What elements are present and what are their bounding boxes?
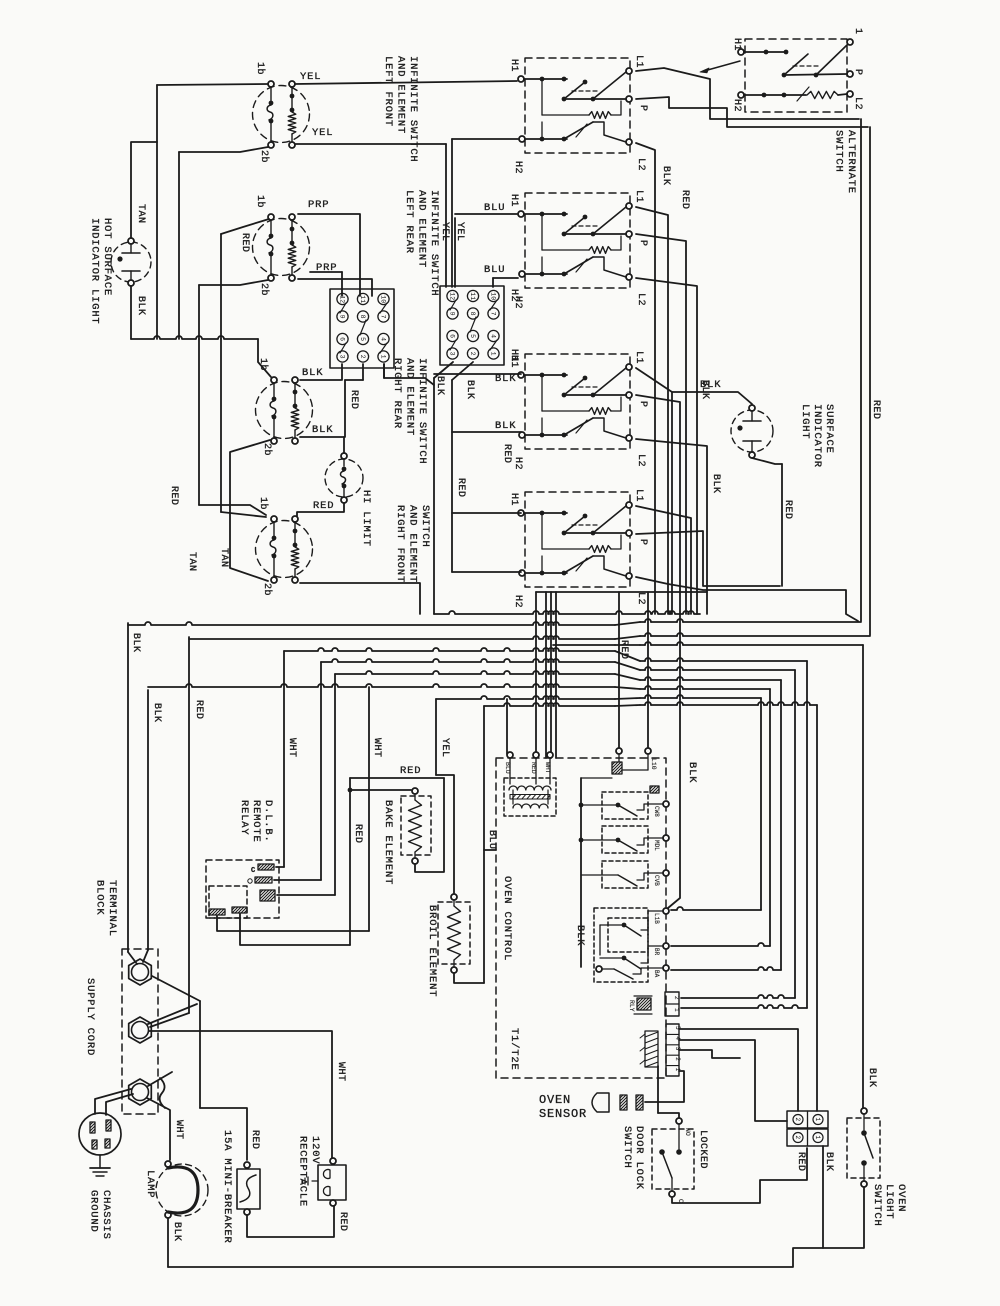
infinite switch right front - 1b terminal [271,516,277,522]
oven control contact CVB [602,861,648,888]
svg-text:5: 5 [359,337,366,341]
left terminal 12 [337,293,348,304]
right terminal 1 [488,348,499,359]
unit 3 terminal L2 [626,435,632,441]
svg-text:4: 4 [489,334,496,338]
svg-text:BROIL ELEMENT: BROIL ELEMENT [426,905,438,997]
svg-text:H2: H2 [731,99,742,112]
svg-text:YEL: YEL [439,738,450,758]
svg-text:TERMINAL: TERMINAL [106,880,118,937]
supply terminal nut 2 [129,1017,152,1043]
wire: nut1 fan to x200 [152,976,200,1001]
infinite switch right front - dashed body [256,521,313,578]
wire bus x221 lower run to RF 1b [220,339,222,512]
svg-text:T1/T2E: T1/T2E [508,1028,520,1071]
svg-text:D.L.B.: D.L.B. [262,800,274,843]
wire YEL: LF element bottom right [295,143,446,145]
svg-text:INFINITE SWITCH: INFINITE SWITCH [407,56,419,163]
right terminal 6 [447,330,458,341]
right terminal 12 [447,290,458,301]
wire: bus y699 down x761 to L1B [760,698,762,910]
unit 3 terminal H2 [519,432,525,438]
svg-text:RED: RED [239,233,250,253]
svg-text:BLU: BLU [504,762,511,774]
svg-text:120V: 120V [309,1136,321,1164]
wire crossing wiggle near nut3 [160,1078,165,1108]
svg-text:L1: L1 [633,489,644,502]
RLY 2-pin connector [665,992,679,1016]
svg-text:SWITCH: SWITCH [419,505,431,548]
HI LIMIT bottom wire to RF element top [297,503,344,516]
svg-text:L2: L2 [852,97,863,110]
svg-text:WHT: WHT [544,762,551,774]
svg-text:RECEPTACLE: RECEPTACLE [297,1136,309,1207]
wire bundle verticals into oven control [535,592,537,754]
oven control contact MDL [602,826,648,853]
oven control contact CW8 [602,792,648,819]
wire: x452 into unit4 H1 [452,512,521,514]
svg-text:L10: L10 [650,758,657,770]
relay pin N (mid) [255,877,272,883]
wire YEL: LF element top to switch unit1 H1 [295,81,517,84]
unit 1 (top) terminal L2 [626,139,632,145]
relay pin N (top) [258,864,274,870]
wire BLK from lamp bottom [167,1218,169,1267]
unit 3 internal contacts [524,374,567,376]
wires from ground to nut3 [95,1089,131,1114]
wire YEL vertical to right terminal block [445,144,447,287]
infinite switch left front - dashed body [253,86,310,143]
svg-text:RED: RED [782,500,793,520]
unit 1 (top) internal contacts [524,78,567,80]
svg-text:TAN: TAN [218,548,229,568]
supply terminal nut 3 [129,1079,152,1105]
svg-text:1b: 1b [254,195,266,208]
wire: RR 1b from junction row [258,339,271,377]
svg-text:YEL: YEL [300,71,321,83]
infinite switch right rear - 1b terminal [271,377,277,383]
svg-text:REMOTE: REMOTE [250,800,262,843]
wire: unit1 L2 down bus x655 [636,143,655,614]
wire TAN: indicator light top [131,142,157,238]
wire to unit1 H2 [452,138,518,140]
svg-text:RIGHT FRONT: RIGHT FRONT [394,505,406,583]
svg-text:RED: RED [870,400,881,420]
svg-text:CW8: CW8 [653,806,660,817]
svg-text:H1: H1 [508,493,519,506]
svg-text:H1: H1 [508,59,519,72]
chassis ground connector [79,1113,121,1155]
infinite switch left rear - 1b terminal [268,214,274,220]
wire: RF element bottom [300,583,420,614]
unit 1 (top) terminal H2 [519,136,525,142]
arrow pointing to alternate switch wiring [704,61,740,71]
wire bake top from x350 [350,789,411,791]
element coil of left rear [289,214,295,220]
wire block2 BLK down to bottom run [822,1146,824,1248]
wire: nut3 to lamp (WHT) [147,1098,170,1160]
left terminal 9 [337,311,348,322]
svg-text:2: 2 [794,1136,801,1140]
wire bus RED y639 [189,636,615,639]
right terminal 9 [447,308,458,319]
unit 3 terminal H1 [518,372,524,378]
wire y778 RED run [350,777,444,779]
wire WHT x284 to relay pin C [283,651,285,867]
unit 4 (bottom) terminal P [626,530,632,536]
15A mini-breaker [237,1169,260,1209]
svg-text:P: P [637,401,648,408]
left terminal 5 [357,333,368,344]
svg-text:BLK: BLK [574,925,586,946]
svg-text:RED: RED [679,190,690,210]
wire: left block bottom stubs [383,364,385,378]
wire y614 run to bundle [434,611,700,614]
svg-text:C: C [251,867,255,875]
wire BLK: bus y645 down x863 to oven light switch [862,645,864,1110]
svg-text:H1: H1 [508,355,519,368]
wire bundle tops y592 [536,591,707,593]
wire: unit2 P down bus x686 [636,234,686,614]
chassis ground symbol [99,1155,101,1168]
oven control transformer [504,778,556,816]
terminal block right [440,286,504,365]
unit 4 (bottom) lower contact [525,572,567,574]
svg-text:P: P [637,240,648,247]
alternate switch contacts [744,51,786,53]
svg-text:10: 10 [379,295,386,303]
unit 4 (bottom) internal contacts [524,512,567,514]
wire: unit3 L2 down bus x707 [636,439,707,614]
unit 3 terminal P [626,392,632,398]
svg-text:RED: RED [337,1212,348,1232]
svg-text:H2: H2 [512,457,523,470]
wire BLK: RR element top to left block stub [300,379,341,381]
svg-text:6: 6 [448,334,455,338]
wire broil bottom to BLU x484 [454,973,484,983]
wire PRP: LR element top to left block [298,214,360,296]
svg-text:H2: H2 [512,595,523,608]
D.L.B. remote relay dashed enclosure [206,860,279,918]
unit 3 terminal L1 [626,364,632,370]
wire BLK x148 down to nut1 [147,690,149,950]
svg-text:2: 2 [674,1057,681,1061]
wire: x452 corner into unit4 H2 [452,571,521,573]
infinite switch left front - contact blade [270,87,272,101]
svg-text:LIGHT: LIGHT [883,1184,895,1220]
svg-text:WHT: WHT [173,1120,184,1140]
wire y1008 to RLY connector [681,1005,807,1008]
unit 2 internal contacts [524,213,567,215]
wire: right block bottom to x452 [452,362,473,380]
120V receptacle [318,1165,346,1200]
wire from 5-pin row3 stub [679,1050,740,1058]
wire bus y674 [335,671,615,674]
svg-text:RED: RED [352,824,363,844]
bake element [401,796,431,855]
svg-text:SWITCH: SWITCH [871,1184,883,1227]
svg-text:BLK: BLK [866,1068,877,1088]
svg-text:WHT: WHT [286,738,297,758]
svg-text:1b: 1b [257,497,269,510]
wire from 5-pin row5 to block1 [679,1029,798,1111]
unit 2 terminal P [626,231,632,237]
unit 3 pilot resistor [541,375,543,411]
svg-text:LEFT FRONT: LEFT FRONT [382,56,394,127]
unit 1 (top) terminal P [626,96,632,102]
lower contact BA [596,966,602,972]
wire: unit4 L2 to right trunk corner [636,577,858,621]
svg-text:2b: 2b [261,443,273,456]
svg-text:RED: RED [348,390,359,410]
svg-text:INDICATOR: INDICATOR [811,404,823,468]
svg-text:INFINITE SWITCH: INFINITE SWITCH [428,190,440,297]
wire: x200 to mini-breaker top [200,1108,247,1160]
unit 3 lower contact [525,434,567,436]
svg-text:BLU: BLU [484,202,505,214]
left terminal 8 [357,311,368,322]
hot surface indicator light [111,242,151,282]
svg-text:SWITCH: SWITCH [621,1126,633,1169]
svg-text:RED: RED [193,700,204,720]
svg-text:BLK: BLK [130,633,141,653]
left terminal 3 [337,351,348,362]
svg-text:5: 5 [469,334,476,338]
alternate switch terminal H2 [738,92,744,98]
unit 2 pilot resistor [541,214,543,250]
supply terminal nut 1 [129,959,152,985]
svg-text:TAN: TAN [186,552,197,572]
svg-text:RED: RED [313,500,334,512]
svg-text:LIGHT: LIGHT [799,404,811,440]
wire: surface light bottom to x782 [752,458,782,464]
infinite switch left rear - 2b terminal [268,275,274,281]
svg-text:2: 2 [469,352,476,356]
svg-text:P: P [637,539,648,546]
right terminal 11 [467,290,478,301]
infinite switch right rear - dashed body [256,382,313,439]
right internal jumpers [450,300,456,310]
svg-text:1: 1 [814,1118,821,1122]
wire trunk RED: unit1 P to right edge [636,97,868,127]
left terminal 11 [357,293,368,304]
infinite switch left rear - contact blade [270,220,272,234]
svg-text:15A MINI-BREAKER: 15A MINI-BREAKER [221,1130,233,1244]
infinite switch left front - 1b terminal [268,81,274,87]
left terminal 7 [378,311,389,322]
svg-text:10: 10 [489,292,496,300]
svg-text:BLK: BLK [495,373,516,385]
svg-text:RELAY: RELAY [238,800,250,836]
svg-text:P: P [637,105,648,112]
left terminal 1 [378,351,389,362]
svg-text:1: 1 [852,28,863,35]
connector block lower [787,1129,828,1146]
wire BLK: indicator light bottom to junction row [131,336,258,339]
wire: LR 1b to bus x221 [221,219,269,234]
left terminal 4 [378,333,389,344]
oven control lower contact group [594,908,648,982]
svg-text:RED: RED [530,762,537,774]
wire from 5-pin row1 to oven sensor [645,1071,684,1102]
svg-text:BLK: BLK [700,379,721,391]
lower contact L1B [600,924,624,926]
left terminal 6 [337,333,348,344]
wire: x672 down [671,392,673,614]
surface switch unit 1 (top) - dashed enclosure [525,58,630,153]
oven lamp [156,1164,208,1216]
svg-text:PRP: PRP [308,199,329,211]
wire y998 to RLY connector [681,995,795,998]
right terminal 3 [447,348,458,359]
oven control relay L10 [616,748,622,754]
svg-text:L2: L2 [635,293,646,306]
wire bus x199 lower run to RF 1b [198,339,200,505]
infinite switch right front - contact blade [273,522,275,536]
wire bus y687 [148,684,615,687]
svg-text:4: 4 [379,337,386,341]
svg-text:8: 8 [359,315,366,319]
svg-text:L2: L2 [635,592,646,605]
unit 2 lower contact [525,273,567,275]
svg-text:1: 1 [379,355,386,359]
wire x369 down [368,687,370,931]
svg-text:H1: H1 [508,194,519,207]
svg-text:H2: H2 [512,161,523,174]
wire BLK: unit3 L1 to surface indicator light [636,368,752,404]
svg-text:INDICATOR LIGHT: INDICATOR LIGHT [89,218,101,325]
connector block upper [787,1111,828,1128]
svg-text:BLK: BLK [686,762,698,783]
svg-text:AND ELEMENT: AND ELEMENT [407,505,419,583]
wire y970 to oven control BA [671,967,781,970]
svg-text:OVEN: OVEN [895,1184,907,1212]
left terminal 2 [357,351,368,362]
wire: unit3 P down bus x680 continuing to oven control L1B [636,395,680,908]
svg-text:BLK: BLK [135,296,146,316]
wire RED mini-breaker bottom loop [247,1206,334,1237]
wire: x434 into unit3 H1 [434,373,521,375]
svg-text:SWITCH: SWITCH [833,130,845,173]
svg-text:OVEN CONTROL: OVEN CONTROL [501,876,513,961]
wire BLU: unit2 H2 left [493,277,518,279]
svg-text:AND ELEMENT: AND ELEMENT [395,56,407,134]
svg-text:SURFACE: SURFACE [823,404,835,454]
wire: door lock NO feed [658,1113,679,1118]
svg-text:8: 8 [469,312,476,316]
relay bottom pin 1 [209,909,225,915]
wire: bus y687 down x770 to BR [769,689,771,946]
svg-text:RED: RED [168,486,179,506]
svg-text:3: 3 [448,352,455,356]
element coil of left front [289,81,295,87]
wire RED x189 down to nut2 [188,637,190,1013]
wire: LF 2b to bus x179 [179,147,268,152]
unit 4 (bottom) terminal H1 [518,510,524,516]
unit 4 (bottom) terminal H2 [519,570,525,576]
wire bus y706 [484,703,615,706]
wire: nut2 fan up [148,1004,197,1024]
svg-text:2: 2 [359,355,366,359]
svg-text:BLK: BLK [171,1222,182,1242]
receptacle ground pin symbol [312,1180,318,1182]
svg-text:RED: RED [400,765,421,777]
wire stub left block to x434 [384,364,434,385]
oven light switch dashed enclosure [847,1118,880,1178]
wire relay bottom pin1 down [217,916,369,931]
svg-text:3: 3 [338,355,345,359]
svg-text:11: 11 [469,292,476,300]
wire BLU x484 down [483,706,485,983]
unit 2 terminal H1 [518,211,524,217]
wire BLK x128 down to nut1 [127,623,129,952]
terminal block left [330,289,394,368]
svg-text:2: 2 [794,1118,801,1122]
wire BLU: unit2 H1 left [455,213,517,215]
surface switch unit 4 (bottom) - dashed enclosure [525,492,630,587]
svg-text:HOT SURFACE: HOT SURFACE [101,218,113,296]
svg-text:LAMP: LAMP [144,1170,156,1198]
unit 2 terminal H2 [519,271,525,277]
svg-text:DOOR LOCK: DOOR LOCK [633,1126,645,1190]
wire stub left block col3 [341,272,343,296]
wire 5-pin to door lock area [657,1066,659,1113]
oven control left internal link [599,925,601,955]
svg-text:ALTERNATE: ALTERNATE [845,130,857,194]
wire long bottom BLK run [168,1186,864,1267]
wire: RR 2b to left [230,440,270,581]
svg-text:9: 9 [448,312,455,316]
svg-text:2b: 2b [258,283,270,296]
wire bus y699 [436,696,615,699]
unit 1 (top) terminal L1 [626,68,632,74]
wire: unit2 L1 down bus x668 [636,207,668,614]
wire x321 to relay pin N [320,662,322,880]
svg-text:WHT: WHT [371,738,382,758]
door lock switch dashed enclosure [652,1129,694,1189]
svg-text:L2: L2 [635,158,646,171]
oven control internal feed line [580,778,582,967]
svg-text:LOCKED: LOCKED [697,1130,708,1169]
unit 2 terminal L1 [626,203,632,209]
svg-text:BLOCK: BLOCK [94,880,106,916]
svg-text:RED: RED [455,478,466,498]
unit 1 (top) pilot resistor [541,79,543,115]
element coil of right front [292,516,298,522]
svg-text:RED: RED [249,1130,260,1150]
svg-text:9: 9 [338,315,345,319]
svg-text:L2: L2 [635,454,646,467]
svg-text:NO: NO [684,1128,691,1136]
wire x350 down [349,778,351,945]
surface switch unit 3 - dashed enclosure [525,354,630,449]
infinite switch right rear - contact blade [273,383,275,397]
wire bus BLK y623 full width [128,622,615,625]
right terminal 7 [488,308,499,319]
svg-text:1: 1 [814,1136,821,1140]
HI LIMIT top wire [343,437,345,453]
svg-text:BLK: BLK [434,376,445,396]
svg-text:BLK: BLK [302,367,323,379]
unit 1 (top) lower contact [525,138,567,140]
wire trunk BLK: unit1 L1 to right edge [636,68,859,119]
wire: bus y662 down x795 [794,670,796,998]
wire door lock C to block2 [672,1148,807,1203]
svg-text:SUPPLY CORD: SUPPLY CORD [84,978,96,1056]
svg-text:YEL: YEL [312,127,333,139]
5-pin connector T1/T2E [666,1024,679,1076]
unit 4 (bottom) terminal L2 [626,573,632,579]
